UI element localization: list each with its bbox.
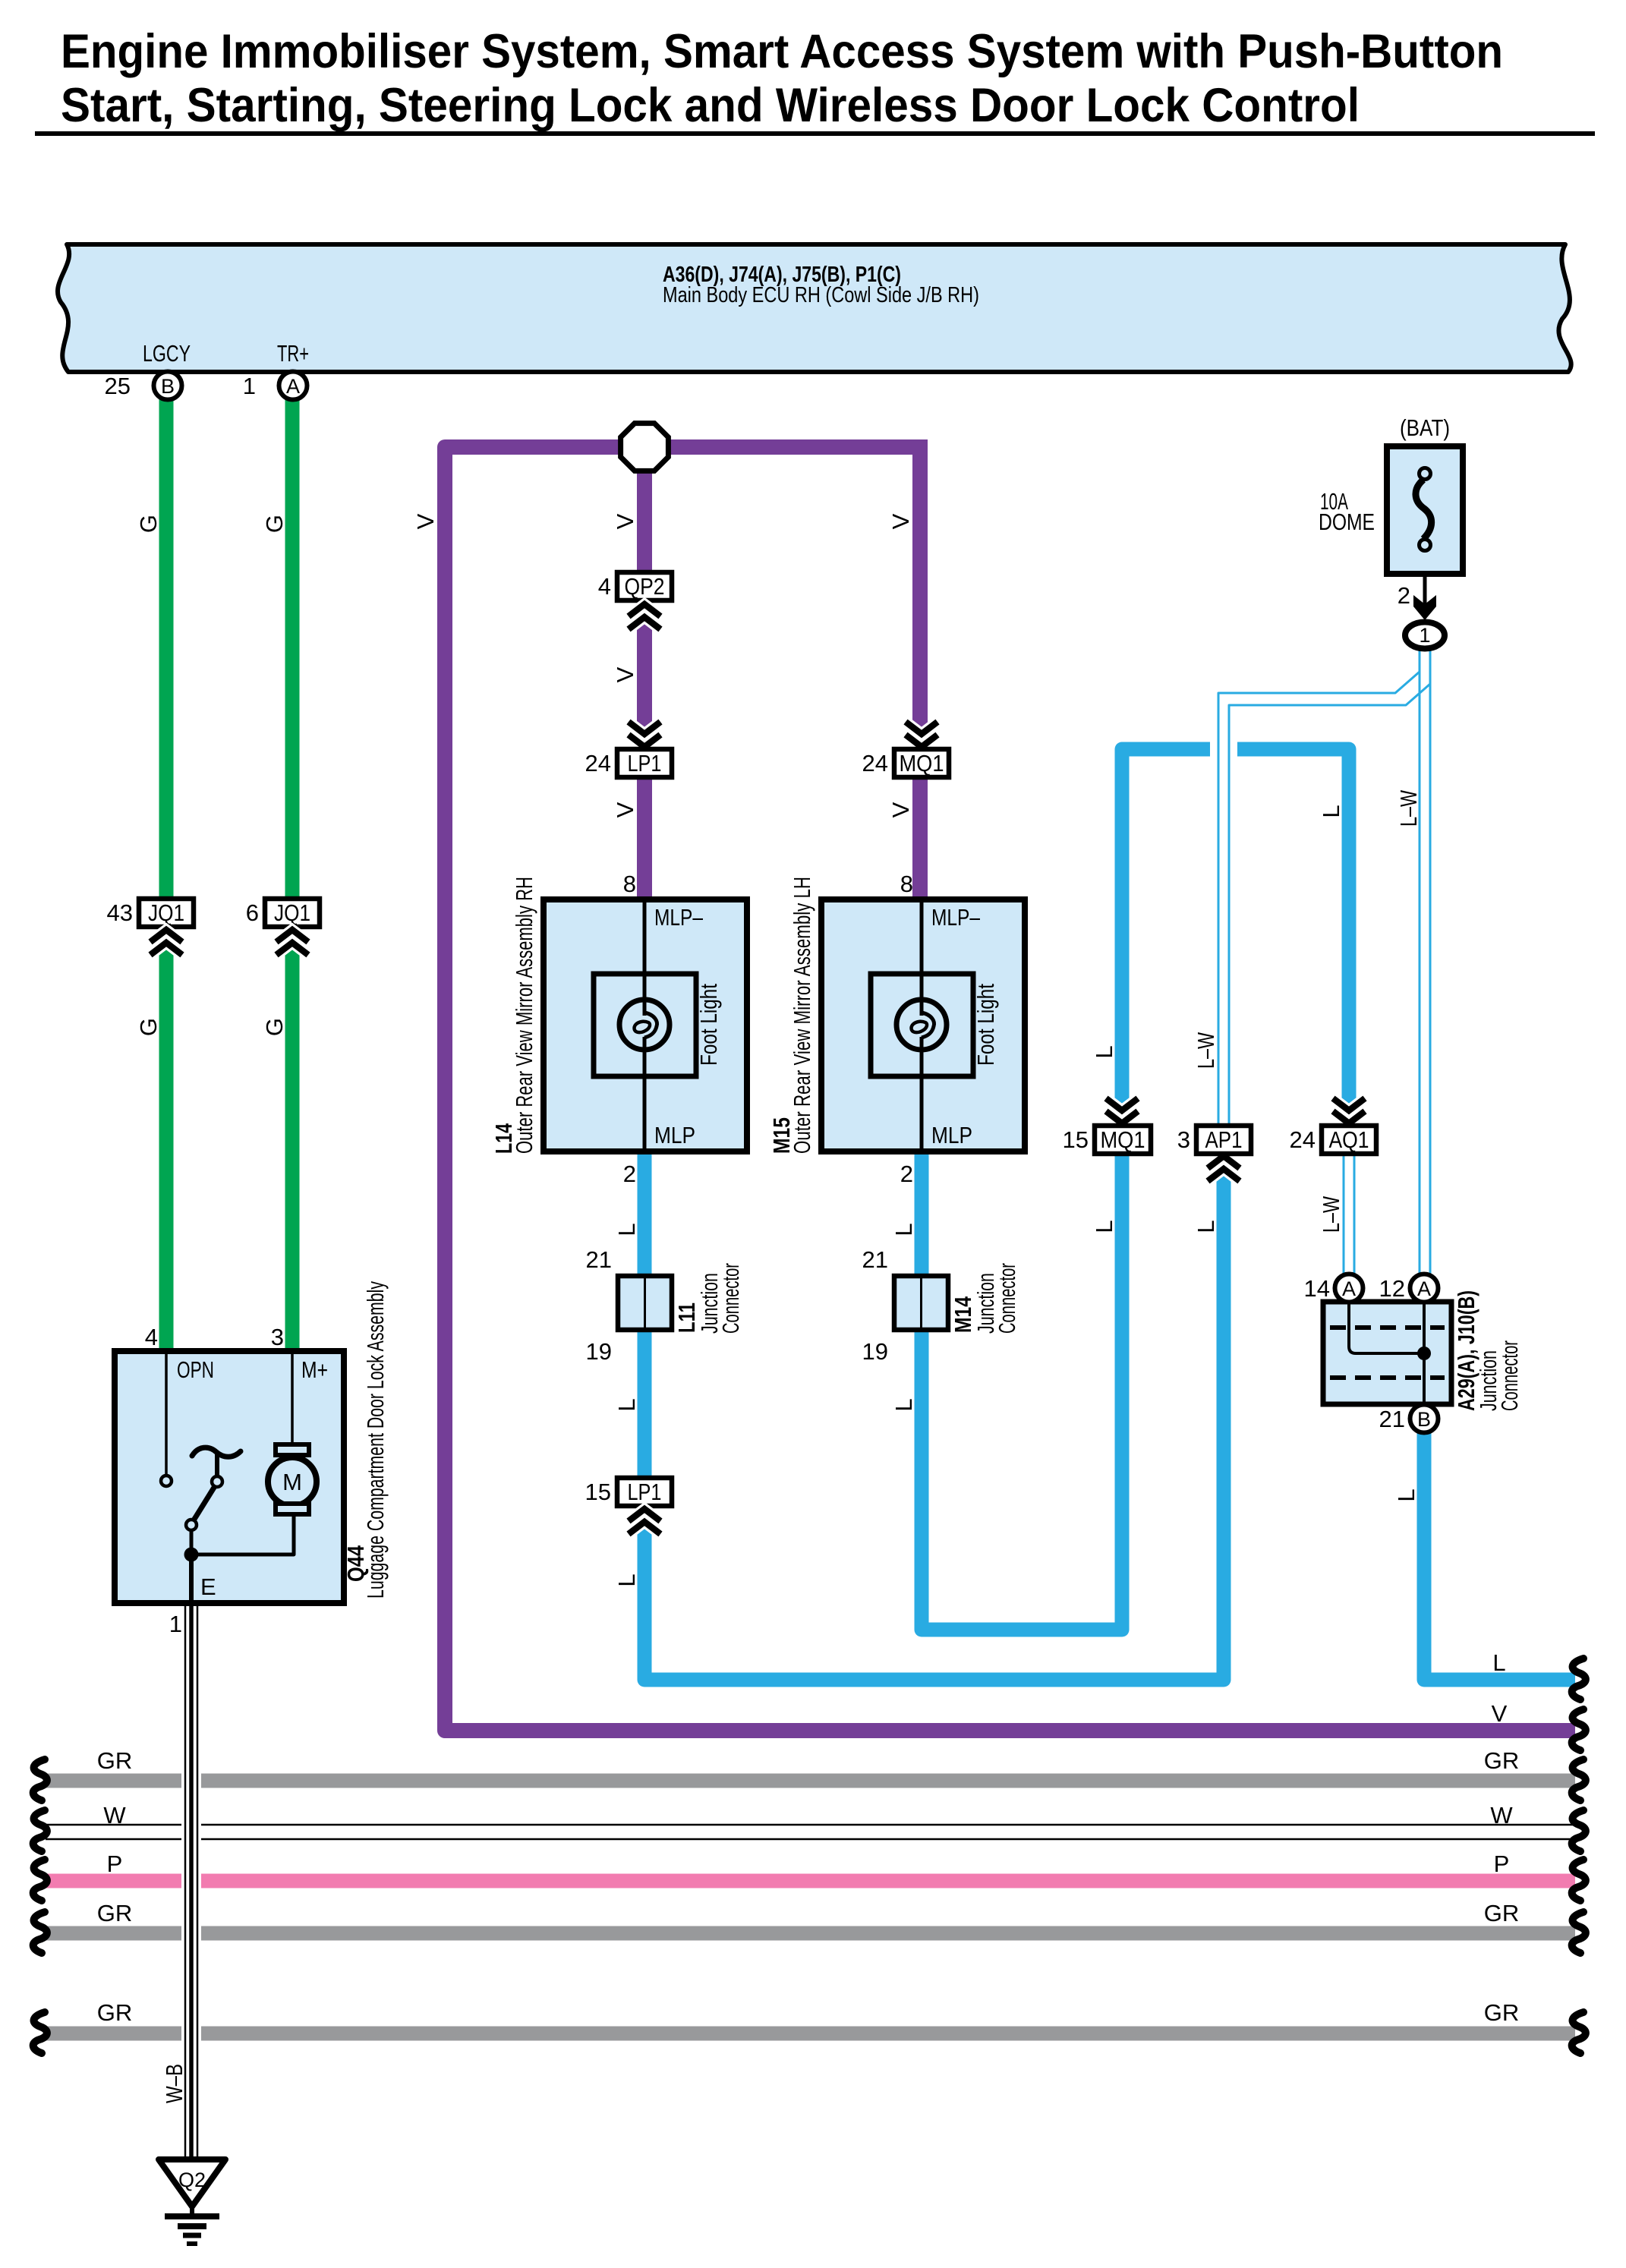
svg-text:24: 24 — [862, 750, 888, 776]
splice chevron below AP1 — [1208, 1156, 1240, 1181]
connector 15 MQ1 — [1063, 1126, 1151, 1154]
connector 3 AP1 — [1177, 1126, 1251, 1154]
connector pin 14 A — [1304, 1274, 1363, 1303]
connector 6 JQ1 — [246, 899, 320, 927]
wire break squiggle V right — [1572, 1709, 1586, 1750]
svg-text:Outer Rear View Mirror Assembl: Outer Rear View Mirror Assembly LH — [789, 877, 815, 1154]
svg-text:43: 43 — [107, 899, 133, 926]
splice chevron below JQ1 (6) — [276, 930, 308, 955]
svg-text:W: W — [103, 1802, 126, 1829]
arrow to connector 1 — [1413, 595, 1436, 620]
svg-text:LP1: LP1 — [628, 1479, 662, 1505]
svg-text:(BAT): (BAT) — [1400, 414, 1450, 441]
svg-text:P: P — [1494, 1851, 1510, 1877]
svg-text:1: 1 — [243, 373, 256, 399]
svg-text:24: 24 — [585, 750, 611, 776]
svg-text:OPN: OPN — [177, 1356, 214, 1383]
svg-text:GR: GR — [97, 1747, 133, 1774]
svg-text:L: L — [1492, 1649, 1505, 1676]
svg-text:V: V — [612, 802, 638, 817]
svg-text:8: 8 — [900, 871, 913, 897]
svg-text:G: G — [261, 1018, 288, 1036]
splice chevron below QP2 — [629, 604, 660, 629]
svg-text:V: V — [612, 513, 638, 529]
splice chevron below LP1 (15) — [629, 1509, 660, 1534]
svg-text:GR: GR — [1484, 1999, 1520, 2026]
wire break squiggle W left — [33, 1810, 47, 1851]
svg-text:1: 1 — [169, 1611, 182, 1637]
svg-text:4: 4 — [598, 573, 611, 600]
svg-text:MQ1: MQ1 — [900, 750, 944, 776]
wire from fuse pin 2 — [1423, 574, 1427, 607]
connector 24 MQ1 — [862, 749, 949, 777]
splice chevron above MQ1 (15) — [1106, 1098, 1138, 1123]
ground bus GR — [46, 1747, 1575, 1781]
connector 1 oval — [1405, 622, 1445, 649]
wire W-B from Q44 pin 1 to ground — [161, 1603, 197, 2159]
connector 24 LP1 — [585, 749, 672, 777]
white halo where L-W crosses blue — [1210, 725, 1237, 774]
svg-text:6: 6 — [246, 899, 259, 926]
svg-text:2: 2 — [623, 1161, 636, 1187]
green wire G from ECU pin 1(A) to Q44 pin 3 — [285, 386, 300, 1354]
svg-text:L: L — [613, 1223, 640, 1236]
svg-text:TR+: TR+ — [277, 340, 309, 367]
splice chevron above MQ1 (24) — [906, 722, 937, 747]
wire break squiggle P right — [1572, 1860, 1586, 1901]
blue wire L from M15 pin2 via M14, MQ1 to AQ1 — [922, 749, 1349, 1630]
svg-text:V: V — [1492, 1700, 1508, 1727]
wire break squiggle GR right — [1572, 1759, 1586, 1800]
svg-text:A: A — [286, 375, 300, 398]
blue wire L from L14 pin2 to AP1 — [644, 1148, 1224, 1680]
svg-text:V: V — [412, 513, 439, 529]
svg-text:M+: M+ — [301, 1356, 328, 1383]
title — [35, 25, 1595, 134]
svg-text:MQ1: MQ1 — [1101, 1126, 1145, 1153]
svg-text:15: 15 — [1063, 1126, 1089, 1153]
fuse 10A DOME — [1319, 414, 1463, 574]
mirror assembly M15 — [768, 871, 1025, 1187]
svg-text:Engine Immobiliser System, Sma: Engine Immobiliser System, Smart Access … — [61, 25, 1503, 78]
junction connector M14 — [862, 1246, 1020, 1365]
splice chevron above AQ1 — [1333, 1098, 1365, 1123]
bus GR — [46, 1900, 1575, 1933]
svg-text:L: L — [1193, 1220, 1219, 1233]
connector 43 JQ1 — [107, 899, 194, 927]
connector 4 QP2 — [598, 572, 672, 600]
wire break squiggle W right — [1572, 1810, 1586, 1851]
svg-text:14: 14 — [1304, 1275, 1330, 1302]
Main Body ECU block A36/J74/J75/P1 — [58, 244, 1571, 372]
connector pin 21 B — [1379, 1405, 1439, 1433]
svg-text:B: B — [161, 375, 175, 398]
svg-text:M: M — [282, 1469, 302, 1495]
svg-text:G: G — [135, 515, 162, 533]
svg-text:15: 15 — [585, 1479, 611, 1505]
switch — [165, 1354, 168, 1476]
bus W — [46, 1802, 1575, 1839]
svg-text:G: G — [261, 515, 288, 533]
connector 24 AQ1 — [1290, 1126, 1376, 1154]
svg-text:L: L — [1318, 805, 1344, 817]
svg-text:L: L — [613, 1398, 640, 1411]
svg-text:L–W: L–W — [1395, 789, 1422, 827]
connector pin 1 A — [243, 372, 307, 400]
svg-text:DOME: DOME — [1319, 509, 1375, 535]
purple wire V to L14 — [637, 447, 652, 911]
wire break squiggle GR left — [33, 1912, 47, 1953]
svg-text:L: L — [890, 1223, 917, 1236]
svg-text:L–W: L–W — [1318, 1195, 1344, 1233]
svg-text:8: 8 — [623, 871, 636, 897]
svg-text:MLP: MLP — [931, 1122, 972, 1148]
svg-text:JQ1: JQ1 — [274, 899, 310, 926]
connector pin 12 A — [1379, 1274, 1439, 1303]
svg-text:Start, Starting, Steering Lock: Start, Starting, Steering Lock and Wirel… — [61, 79, 1360, 132]
svg-text:LP1: LP1 — [628, 750, 662, 776]
svg-text:3: 3 — [1177, 1126, 1190, 1153]
svg-text:MLP: MLP — [654, 1122, 695, 1148]
svg-text:AQ1: AQ1 — [1329, 1126, 1369, 1153]
thin wire L-W pair from AQ1 to A(14) — [1343, 1151, 1345, 1275]
svg-text:GR: GR — [1484, 1900, 1520, 1926]
svg-text:V: V — [887, 513, 914, 529]
svg-text:L: L — [613, 1573, 640, 1586]
thin wire L-W pair from fuse to AP1 — [1218, 672, 1420, 1127]
splice chevron below JQ1 (43) — [150, 930, 182, 955]
svg-text:Outer Rear View Mirror Assembl: Outer Rear View Mirror Assembly RH — [511, 877, 537, 1154]
wire break squiggle GR right — [1572, 2012, 1586, 2053]
junction octagon — [621, 424, 669, 471]
bus GR — [46, 1999, 1575, 2033]
svg-text:AP1: AP1 — [1205, 1126, 1243, 1153]
svg-text:19: 19 — [862, 1338, 888, 1365]
luggage compartment door lock assembly Q44 — [115, 1281, 389, 1637]
bus P — [46, 1851, 1575, 1881]
thin wire L-W pair from fuse to A(12) — [1419, 646, 1421, 1275]
junction connector L11 — [586, 1246, 744, 1365]
mirror assembly L14 — [490, 871, 747, 1187]
svg-text:LGCY: LGCY — [143, 340, 191, 367]
svg-text:12: 12 — [1379, 1275, 1405, 1302]
svg-text:Main Body ECU RH (Cowl Side J/: Main Body ECU RH (Cowl Side J/B RH) — [663, 283, 979, 307]
svg-text:4: 4 — [145, 1324, 158, 1350]
svg-text:V: V — [612, 666, 638, 682]
ground Q2 — [159, 2159, 225, 2244]
svg-text:MLP–: MLP– — [931, 904, 981, 931]
svg-text:25: 25 — [105, 373, 131, 399]
svg-text:Foot Light: Foot Light — [972, 984, 999, 1066]
wire break squiggle GR right — [1572, 1912, 1586, 1953]
svg-text:W–B: W–B — [161, 2064, 187, 2103]
wire break squiggle P left — [33, 1860, 47, 1901]
svg-text:GR: GR — [97, 1900, 133, 1926]
svg-text:Connector: Connector — [717, 1263, 744, 1334]
svg-text:A: A — [1342, 1277, 1356, 1300]
svg-text:L–W: L–W — [1193, 1032, 1219, 1069]
junction connector A29(A) J10(B) — [1323, 1290, 1523, 1411]
svg-text:P: P — [107, 1851, 123, 1877]
svg-text:21: 21 — [1379, 1406, 1405, 1432]
svg-text:Luggage Compartment Door Lock: Luggage Compartment Door Lock Assembly — [362, 1281, 389, 1599]
svg-text:GR: GR — [1484, 1747, 1520, 1774]
svg-text:19: 19 — [586, 1338, 612, 1365]
svg-text:E: E — [200, 1573, 216, 1600]
svg-text:GR: GR — [97, 1999, 133, 2026]
motor M — [291, 1354, 294, 1444]
svg-text:Connector: Connector — [994, 1263, 1020, 1334]
svg-text:Q2: Q2 — [178, 2169, 206, 2191]
svg-text:21: 21 — [862, 1246, 888, 1273]
svg-text:QP2: QP2 — [625, 573, 665, 600]
connector pin 25 B — [105, 372, 182, 400]
foot light bulb — [897, 1000, 947, 1050]
svg-text:L: L — [1091, 1045, 1117, 1058]
svg-text:24: 24 — [1290, 1126, 1316, 1153]
svg-text:L: L — [1393, 1488, 1420, 1501]
svg-text:2: 2 — [1398, 582, 1410, 609]
svg-text:MLP–: MLP– — [654, 904, 704, 931]
purple wire V to M15 — [912, 439, 928, 911]
connector 15 LP1 — [585, 1478, 672, 1506]
svg-text:JQ1: JQ1 — [148, 899, 184, 926]
wire break squiggle L right — [1572, 1658, 1586, 1699]
wire break squiggle GR left — [33, 2012, 47, 2053]
svg-text:L: L — [890, 1398, 917, 1411]
green wire G from ECU pin 25(B) to Q44 pin 4 — [159, 386, 174, 1354]
svg-text:1: 1 — [1419, 624, 1430, 647]
svg-text:Foot Light: Foot Light — [695, 984, 722, 1066]
blue wire L from junction B to right edge — [1424, 1432, 1575, 1680]
wire break squiggle GR left — [33, 1759, 47, 1800]
foot light bulb — [619, 1000, 670, 1050]
svg-text:V: V — [887, 802, 914, 817]
svg-text:L: L — [1091, 1220, 1117, 1233]
svg-text:G: G — [135, 1018, 162, 1036]
purple wire V main run — [445, 447, 1575, 1731]
svg-text:3: 3 — [271, 1324, 284, 1350]
svg-text:21: 21 — [586, 1246, 612, 1273]
splice chevron above LP1 (24) — [629, 722, 660, 747]
svg-text:Connector: Connector — [1496, 1340, 1523, 1411]
svg-text:W: W — [1490, 1802, 1513, 1829]
svg-text:B: B — [1417, 1408, 1431, 1431]
svg-text:2: 2 — [900, 1161, 913, 1187]
svg-text:A: A — [1417, 1277, 1431, 1300]
